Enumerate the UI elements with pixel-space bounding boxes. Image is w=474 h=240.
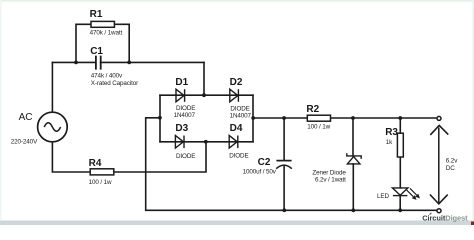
svg-text:AC: AC [19,112,33,123]
wire: R4 to bridge bottom junction [114,142,206,172]
svg-text:C2: C2 [258,157,271,168]
svg-text:DIODE: DIODE [176,105,195,112]
capacitor C1 plates [96,56,101,70]
svg-text:1000uf / 50v: 1000uf / 50v [243,169,277,176]
junction node R1/C1 left [74,61,78,65]
svg-text:6.2v: 6.2v [446,158,458,165]
svg-text:6.2v / 1watt: 6.2v / 1watt [315,176,346,183]
wire: zener bottom lead [352,164,354,210]
resistor R4 body [90,169,114,175]
junction node LED bottom [398,208,402,212]
AC source V1 circle [38,112,68,142]
zener diode Z1 triangle [347,157,360,164]
svg-text:R4: R4 [89,158,102,169]
wire: R3 to LED lead [399,157,401,188]
wire: positive rail R2 to output terminal [331,117,438,119]
LED D5 triangle [392,188,408,195]
svg-text:100 / 1w: 100 / 1w [89,179,112,186]
junction node bridge right DC+ [251,116,255,120]
diode D2 symbol [230,89,239,102]
right edge tint [473,0,474,220]
svg-text:LED: LED [377,193,389,200]
svg-text:R3: R3 [385,127,398,138]
svg-text:C1: C1 [90,46,103,57]
junction node R1/C1 right [127,61,131,65]
junction node C2 bottom [282,208,286,212]
diode D1 symbol [176,89,185,102]
diode D4 symbol [229,136,238,149]
svg-text:474k / 400v: 474k / 400v [91,73,123,80]
wire: C1 right to bridge input corner [101,61,204,63]
wire: bridge output to R2 [253,117,307,119]
wire: AC top lead [51,62,53,112]
wire: zener top lead [352,118,354,156]
junction node bridge left DC- [158,116,162,120]
zener diode Z1 bar [347,153,361,159]
wire: bridge right rail [252,95,254,142]
wire: bridge top rail [160,94,253,96]
bottom footer strip [0,221,474,226]
AC source sine wave [44,123,60,131]
svg-text:Zener Diode: Zener Diode [312,169,346,176]
output terminal minus [437,209,441,213]
junction node C2 top [282,116,286,120]
wire: C2 top lead [283,118,285,160]
wire: AC bottom lead to R4 [52,142,90,172]
wire: top horizontal to C1 [52,61,95,63]
LED D5 cathode bar [393,195,408,197]
left edge tint [0,0,2,220]
wire: C2 bottom lead [283,167,285,211]
svg-text:1N4007: 1N4007 [230,112,252,119]
svg-text:DC: DC [446,165,455,172]
resistor R2 body [307,115,330,121]
LED arrow 2 [410,188,419,197]
svg-text:R2: R2 [306,104,319,115]
svg-text:470k / 1watt: 470k / 1watt [90,29,123,36]
resistor R3 body [397,133,403,157]
wire: bridge left rail [159,95,161,142]
output arrow top chevron [430,125,448,134]
svg-text:D3: D3 [175,123,188,134]
svg-text:X-rated Capacitor: X-rated Capacitor [91,80,138,87]
capacitor C2 top plate [276,160,291,162]
junction node bridge bottom mid [204,140,208,144]
junction node zener bottom [351,208,355,212]
junction node bridge top mid [202,93,206,97]
svg-text:D2: D2 [230,77,243,88]
diode D3 symbol [175,136,184,149]
wire: R1 right branch [114,24,129,62]
junction node zener top [351,116,355,120]
svg-text:CircuitDigest: CircuitDigest [422,214,468,223]
output terminal plus [437,116,441,120]
wire: LED bottom lead [399,196,401,211]
output arrow bottom chevron [430,195,448,204]
svg-text:1N4007: 1N4007 [174,112,196,119]
wire: DC minus from bridge left to bottom rail [146,118,438,211]
logo accent over i [430,213,432,215]
wire: bridge bottom rail [160,141,253,143]
wire: R3 top lead [399,118,401,133]
svg-text:D4: D4 [230,123,243,134]
capacitor C2 curved plate [276,165,292,169]
svg-text:D1: D1 [175,77,188,88]
top edge tint [0,0,474,2]
resistor R1 body [91,21,114,27]
svg-text:1k: 1k [386,139,393,146]
svg-text:R1: R1 [90,9,103,20]
svg-text:DIODE: DIODE [176,153,195,160]
output voltage double arrow shaft [438,128,440,203]
wire: R1 left branch [76,24,91,62]
svg-text:DIODE: DIODE [229,153,248,160]
svg-text:100 / 1w: 100 / 1w [307,124,330,131]
wire: down into bridge top junction [203,62,205,95]
junction node R3 top [398,116,402,120]
svg-text:220-240V: 220-240V [11,139,38,146]
LED arrow 1 [407,190,416,199]
footer corner mark [471,222,474,226]
